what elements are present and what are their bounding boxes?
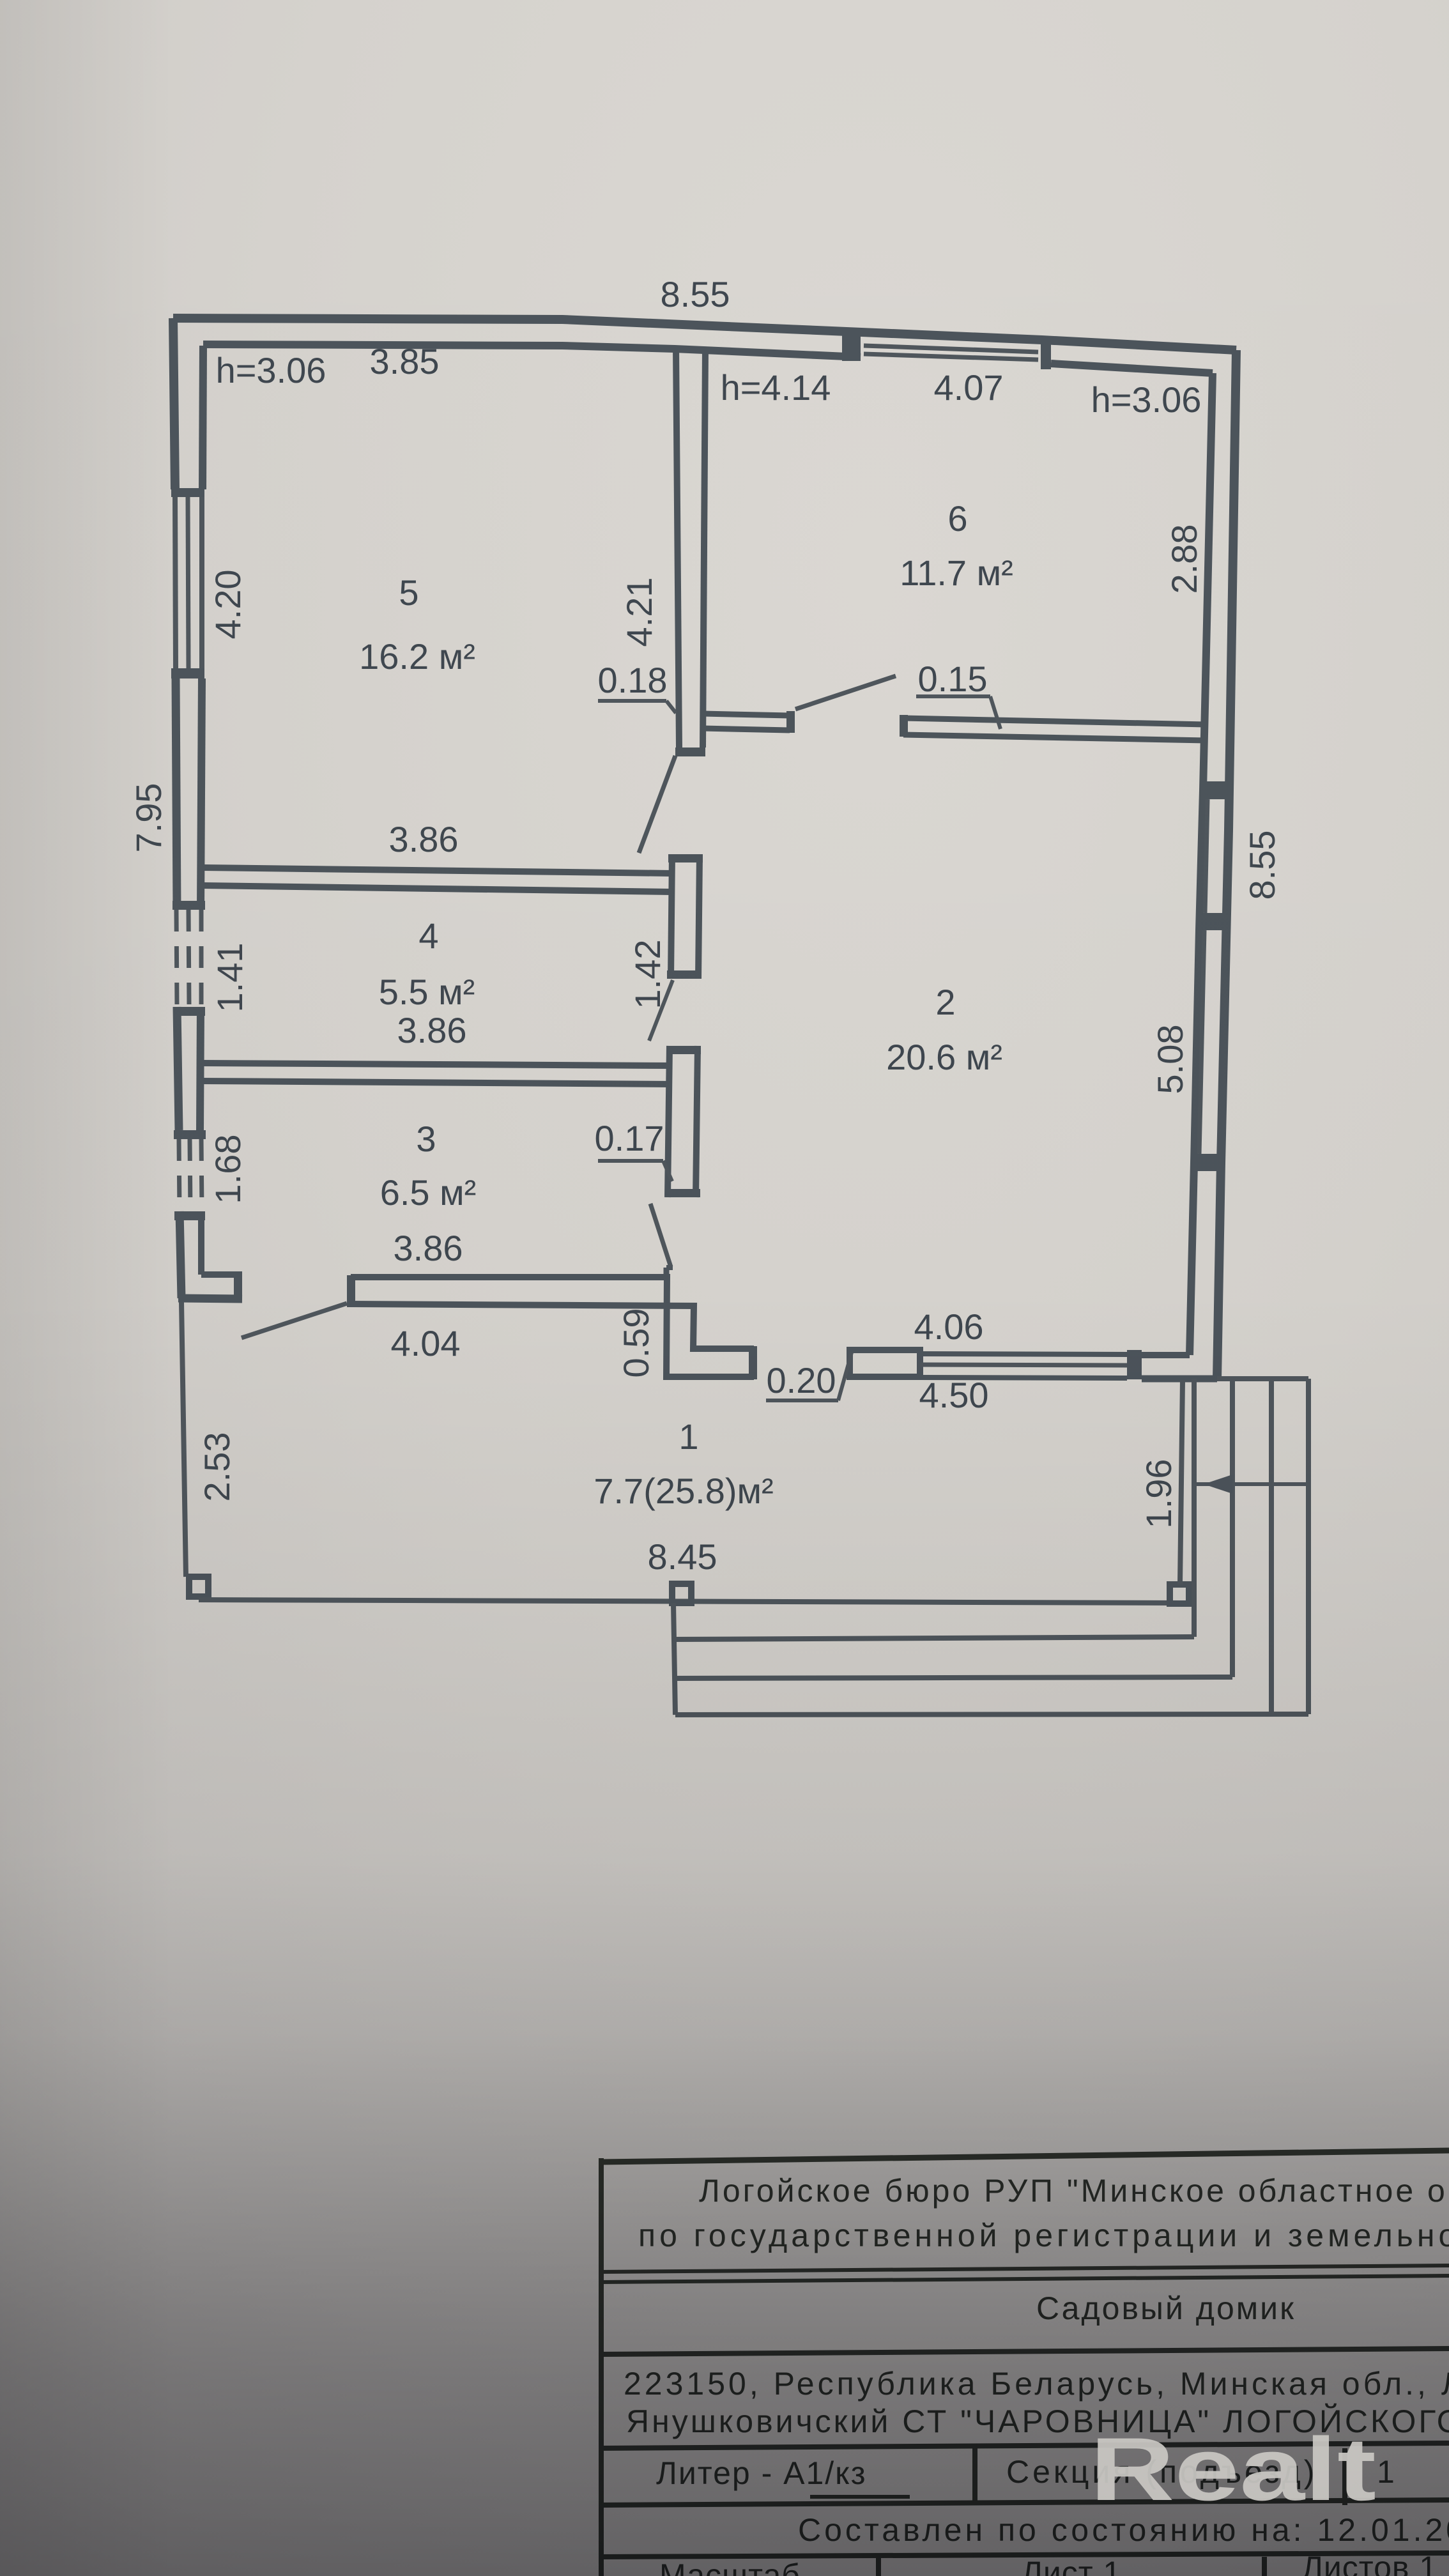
opening: left wall dashed line a (1.68) — [179, 1139, 180, 1211]
opening: left wall dashed line b (1.68) — [190, 1139, 190, 1211]
steps: step line 2 — [675, 1677, 1232, 1678]
wall: room3/veranda + hall L, inner path — [351, 1304, 754, 1349]
wall: partition rooms 6/2 right part, bottom line — [903, 735, 1206, 740]
wall: partition rooms 5/6, right line — [703, 349, 705, 747]
wall: right window sill band 3 — [1193, 1154, 1220, 1171]
wall: partition rooms 6/2 left stub, top line — [703, 714, 790, 716]
opening: left wall dashed line a (1.41) — [176, 910, 177, 1007]
title block: divider 4 — [601, 2500, 1449, 2505]
wall: partition rooms 5/4, top line — [203, 868, 672, 873]
window: top wall glazing line 2 — [864, 354, 1038, 360]
wall: partition rooms 6/2 left stub end cap — [786, 711, 795, 733]
wall: partition rooms 6/2 right part, top line — [903, 718, 1206, 724]
door swing: room 5 door leaf — [639, 756, 675, 853]
wall: partition rooms 4/3, bottom line — [203, 1081, 671, 1084]
wall: partition rooms 6/2 right part start cap — [900, 715, 908, 737]
window: bottom wall glazing middle line — [920, 1365, 1127, 1365]
wall: left corner L-piece top band — [174, 1211, 205, 1220]
title block: bottom row vertical divider 1 — [876, 2557, 881, 2576]
wall: left exterior top solid, inner line — [203, 346, 203, 489]
wall: room3/veranda + hall L, outer path — [351, 1277, 754, 1377]
steps: step line 3 outer — [675, 1714, 1308, 1715]
wall: bottom-right corner outer line — [1142, 1376, 1217, 1383]
window: bottom wall glazing bottom line — [920, 1377, 1127, 1378]
wall: left corner L-piece bottom line — [178, 1298, 242, 1299]
wall: left window 1 bottom sill band — [171, 668, 204, 678]
door swing: room 6 to room 2 door leaf — [795, 676, 896, 709]
wall: bottom window right jamb cap — [1127, 1350, 1142, 1379]
wall: left pier block 1 bottom band — [172, 901, 205, 910]
wall: partition rooms 5/4, bottom line — [203, 885, 672, 892]
veranda: bottom edge line — [199, 1600, 1180, 1603]
wall: left exterior top solid, outer line — [173, 318, 175, 489]
wall: top exterior left section, inner line — [203, 344, 861, 357]
wall: hall L door jamb notch vertical — [664, 1268, 670, 1277]
door leaf panel: entry door in bottom wall — [850, 1350, 920, 1377]
dimension arrow: 1.96 — [1204, 1475, 1232, 1494]
leader: 0.15 underline — [916, 694, 990, 698]
leader: 0.18 underline — [598, 699, 666, 703]
title block: left border — [599, 2158, 604, 2576]
wall: room3/veranda left end cap — [347, 1275, 355, 1307]
leader: 1.42 pointer — [649, 980, 673, 1041]
leader: 0.17 pointer — [663, 1161, 672, 1181]
window: left wall W1 outer line — [175, 497, 176, 668]
title block: divider 1b — [601, 2276, 1449, 2282]
opening: left wall dashed line c (1.68) — [201, 1139, 202, 1211]
wall: central segment A, right line — [698, 854, 700, 979]
veranda: left corner post — [189, 1577, 208, 1597]
wall: bottom-right corner inner line — [1142, 1352, 1190, 1358]
wall: top exterior right section, inner line — [1051, 364, 1213, 373]
veranda: middle post below central wall — [672, 1584, 691, 1603]
title block: divider 1a — [601, 2265, 1449, 2272]
wall: top exterior, outer line — [173, 318, 1236, 350]
stairs: tread line 3 — [1269, 1379, 1274, 1714]
wall: left corner L-piece inner horizontal stub — [201, 1271, 234, 1278]
wall: central segment A top cap — [668, 854, 703, 862]
wall: right exterior, inner line — [1190, 373, 1213, 1355]
leader: 0.20 underline — [766, 1399, 838, 1402]
veranda: right corner post — [1170, 1584, 1189, 1604]
leader: 0.15 pointer — [990, 696, 1000, 729]
wall: hall L right end cap — [749, 1346, 757, 1379]
wall: top window right jamb cap — [1041, 337, 1051, 369]
wall: left pier block 2 top band — [173, 1007, 205, 1016]
wall: left pier block 2, inner line — [200, 1007, 201, 1130]
wall: left pier block 1, outer line — [176, 678, 177, 910]
window: bottom wall glazing top line — [920, 1354, 1127, 1354]
door swing: hall to veranda door leaf — [650, 1204, 671, 1267]
wall: central segment A bottom cap — [667, 970, 701, 979]
wall: left window 1 top sill band — [171, 488, 204, 497]
stairs: outer right edge — [1306, 1379, 1311, 1714]
wall: left pier block 2 bottom band — [174, 1130, 206, 1139]
wall: central segment A, left line — [671, 854, 672, 979]
wall: top window left jamb cap — [842, 332, 861, 361]
wall: hall L door jamb notch horizontal — [666, 1265, 673, 1270]
dimension line: 1.96 — [1193, 1482, 1307, 1486]
wall: central segment B, right line — [696, 1046, 698, 1197]
stairs: tread line 1 — [1192, 1379, 1197, 1637]
wall: partition rooms 5/6, left line — [676, 346, 679, 747]
title block: underline A1/kz — [810, 2495, 910, 2499]
window: left wall W1 middle line — [188, 497, 188, 668]
window: top wall glazing line 1 — [864, 346, 1038, 352]
wall: central segment B top cap — [667, 1046, 701, 1054]
leader: 0.18 pointer — [666, 701, 676, 713]
wall: left corner L-piece stub right cap — [234, 1271, 242, 1299]
wall: left corner L-piece outer line — [180, 1211, 181, 1298]
title block: divider 5 — [601, 2553, 1449, 2557]
wall: central segment B, left line — [668, 1046, 670, 1197]
window: left wall W1 inner line — [199, 497, 204, 668]
wall: partition rooms 4/3, top line — [203, 1063, 671, 1066]
wall: left pier block 2, outer line — [177, 1007, 179, 1130]
steps: left connector below middle post — [673, 1603, 675, 1715]
title block: divider 3 — [601, 2443, 1449, 2448]
wall: right exterior, outer line — [1217, 350, 1236, 1379]
wall: partition rooms 6/2 left stub, bottom line — [703, 728, 790, 730]
leader: 0.17 underline — [598, 1159, 663, 1163]
wall: left pier block 1, inner line — [201, 678, 202, 910]
window: right wall lower glazing mid-line — [1199, 930, 1204, 1154]
veranda: right edge thin line — [1180, 1380, 1183, 1584]
wall: right window sill band 2 — [1199, 913, 1225, 930]
title block: top border — [601, 2150, 1449, 2162]
stairs: tread line 2 — [1230, 1379, 1235, 1677]
wall: partition rooms 5/6 bottom cap — [675, 747, 705, 756]
steps: step line 1 — [675, 1637, 1194, 1639]
opening: left wall dashed line b (1.41) — [188, 910, 189, 1007]
veranda: left edge thin line — [181, 1302, 186, 1577]
window: right wall upper glazing mid-line — [1205, 799, 1207, 913]
leader: 0.20 pointer — [838, 1353, 852, 1400]
title block: bottom row vertical divider 2 — [1262, 2557, 1267, 2576]
title block: divider 2 — [601, 2349, 1449, 2354]
svg-text:Realt: Realt — [1090, 2419, 1376, 2519]
title block: row4 vertical divider 2 — [1342, 2448, 1347, 2505]
door swing: veranda to room 3 door leaf — [241, 1303, 347, 1338]
wall: right window sill band 1 — [1202, 781, 1229, 799]
stairs: top edge line — [1217, 1376, 1308, 1381]
opening: left wall dashed line c (1.41) — [199, 910, 204, 1007]
wall: left corner L-piece inner vertical — [198, 1211, 204, 1275]
wall: central segment B bottom cap — [666, 1189, 700, 1197]
title block: row4 vertical divider 1 — [972, 2448, 977, 2505]
